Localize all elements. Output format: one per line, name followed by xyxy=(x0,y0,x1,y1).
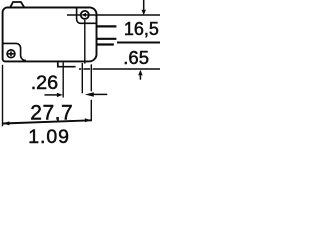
svg-text:1.09: 1.09 xyxy=(28,126,70,148)
svg-text:.65: .65 xyxy=(123,47,149,68)
svg-text:.26: .26 xyxy=(31,72,59,94)
svg-text:16,5: 16,5 xyxy=(124,19,159,39)
svg-text:27,7: 27,7 xyxy=(30,101,73,124)
